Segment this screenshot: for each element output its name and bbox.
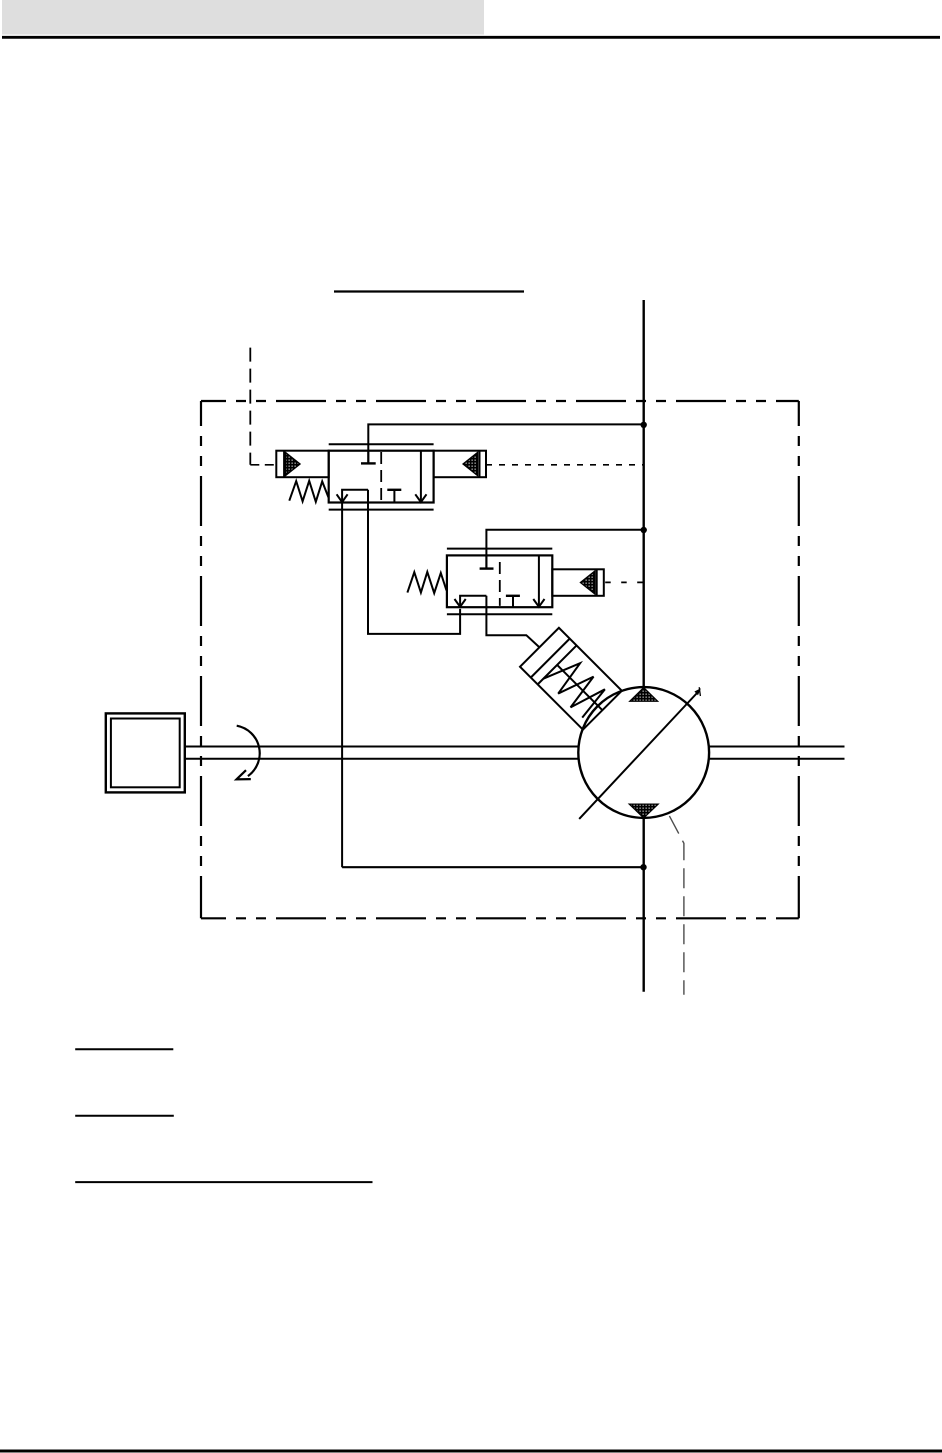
valve V1 right pilot dashed line: [486, 464, 644, 466]
valve V2 right channel with arrow: [533, 555, 544, 606]
through shaft double line right: [709, 747, 845, 759]
valve V1 internal blocked port T: [361, 451, 376, 464]
legend underline 3: [75, 1181, 372, 1183]
rotation direction arc arrow: [237, 726, 260, 776]
pilot dashed riser X: [249, 348, 251, 465]
wire: V1 port A down to bottom rail: [341, 503, 343, 868]
wire: main pressure trunk line: [643, 300, 645, 687]
valve V2 blocked port T2: [506, 596, 520, 607]
valve V1 top pilot wire to trunk: [368, 424, 643, 462]
valve V2 right pilot dashed line: [604, 581, 644, 583]
header rule: [2, 36, 940, 39]
wire: bottom rail to trunk: [342, 866, 643, 868]
junction node at trunk/V1 pilot: [641, 422, 647, 428]
engine box M: [106, 713, 185, 792]
junction node at trunk/bottom rail: [640, 864, 646, 870]
valve V1 position separator (dashed): [380, 452, 382, 501]
enclosure border (dash-dot): [201, 401, 799, 918]
wire: V2 port B to stroking cylinder: [486, 596, 539, 648]
stroking cylinder (displacement control): [520, 628, 622, 730]
valve V2 right solenoid: [552, 569, 604, 596]
junction node at trunk/V2 pilot: [641, 527, 647, 533]
valve V1 right solenoid: [434, 451, 486, 478]
valve V1 spring: [289, 481, 328, 502]
drive shaft double line left: [185, 747, 578, 759]
valve V2 top pilot wire to trunk: [486, 530, 643, 568]
legend underline 2: [75, 1115, 174, 1117]
wire: V1 port B to valve V2: [368, 490, 460, 634]
valve V2 bottom-left passage with arrow: [455, 596, 487, 607]
legend underline 1: [75, 1048, 173, 1050]
valve V2 internal blocked port T: [480, 555, 494, 568]
header bar: [2, 0, 484, 35]
valve V2 spring: [407, 572, 446, 593]
valve V2 body: [447, 549, 552, 615]
footer rule: [0, 1450, 942, 1453]
valve V1 bottom-left passage with arrow: [337, 490, 368, 502]
valve V2 position separator (dashed): [499, 562, 501, 606]
valve V1 right channel with arrow: [415, 451, 426, 502]
valve V1 body: [329, 444, 434, 509]
case drain leader (dashed): [669, 816, 684, 995]
valve V1 blocked port T2: [387, 490, 401, 503]
valve V1 left pilot dashed line: [250, 464, 276, 466]
pump bottom flow triangle: [629, 804, 658, 818]
valve V1 left proportional solenoid: [276, 451, 328, 478]
pump top flow triangle: [630, 688, 658, 702]
pump variable displacement arrow: [579, 693, 697, 819]
title underline: [334, 290, 524, 292]
pump P1 circle: [578, 687, 709, 818]
